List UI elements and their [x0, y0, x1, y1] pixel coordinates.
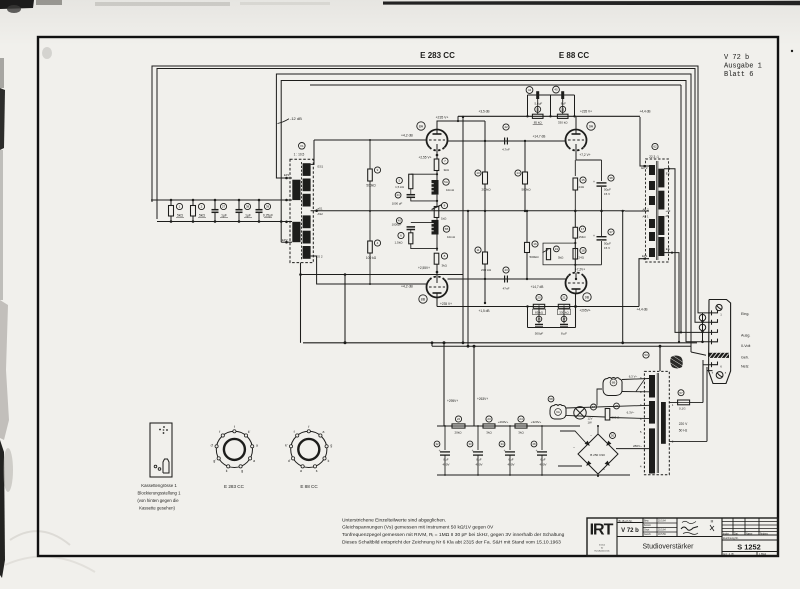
- svg-text:a: a: [256, 444, 258, 448]
- svg-text:12: 12: [536, 107, 540, 111]
- svg-text:d': d': [288, 459, 291, 463]
- svg-text:Netz: Netz: [741, 365, 749, 369]
- svg-text:Tonfrequenzpegel gemessen mi: Tonfrequenzpegel gemessen mit RIVM, Rᵢ =…: [342, 532, 565, 538]
- svg-text:44: 44: [528, 88, 532, 92]
- svg-text:500kΩ: 500kΩ: [366, 184, 376, 188]
- svg-text:330 kΩ: 330 kΩ: [558, 121, 568, 125]
- svg-text:f: f: [294, 430, 295, 434]
- svg-text:g': g': [213, 459, 216, 463]
- svg-text:k': k': [285, 444, 288, 448]
- svg-text:Dat.: Dat.: [734, 532, 739, 535]
- svg-text:EP1: EP1: [284, 173, 290, 177]
- svg-text:M: M: [711, 520, 714, 524]
- svg-text:200 kΩ: 200 kΩ: [481, 268, 492, 272]
- svg-text:+7,2 V+: +7,2 V+: [579, 153, 590, 157]
- svg-text:+235 V+: +235 V+: [436, 116, 449, 120]
- svg-text:Konstr.: Konstr.: [644, 524, 652, 527]
- svg-text:4,7nF: 4,7nF: [502, 148, 510, 152]
- svg-text:E 283 CC: E 283 CC: [420, 51, 455, 60]
- svg-text:1 Blatt: 1 Blatt: [759, 553, 766, 556]
- svg-text:15 V: 15 V: [604, 246, 610, 250]
- svg-text:Zeichnung Nr.: Zeichnung Nr.: [723, 537, 739, 540]
- svg-text:a: a: [300, 469, 302, 473]
- svg-text:200kΩ: 200kΩ: [481, 188, 491, 192]
- svg-text:+235 V+: +235 V+: [440, 302, 452, 306]
- svg-text:E 88 CC: E 88 CC: [559, 51, 589, 60]
- svg-text:Gepr.: Gepr.: [644, 529, 650, 532]
- svg-text:16: 16: [533, 242, 537, 246]
- svg-text:17: 17: [581, 227, 585, 231]
- svg-text:+263V+: +263V+: [477, 397, 488, 401]
- svg-text:+1,5 dB: +1,5 dB: [478, 309, 489, 313]
- svg-text:1 : 10,5: 1 : 10,5: [294, 153, 305, 157]
- svg-text:13: 13: [561, 107, 565, 111]
- svg-text:41: 41: [396, 193, 400, 197]
- svg-text:6,3 V~: 6,3 V~: [629, 375, 638, 379]
- svg-text:9A: 9A: [589, 124, 594, 128]
- svg-text:6A: 6A: [556, 410, 560, 414]
- svg-text:5kΩ: 5kΩ: [558, 256, 564, 260]
- svg-text:10mH: 10mH: [446, 188, 454, 192]
- svg-text:Kassette gesehen): Kassette gesehen): [139, 506, 175, 511]
- svg-text:15: 15: [581, 178, 585, 182]
- svg-text:0,1G: 0,1G: [679, 407, 686, 411]
- svg-text:1000pF: 1000pF: [392, 222, 402, 226]
- svg-text:38: 38: [246, 205, 250, 209]
- svg-text:-12 dB: -12 dB: [290, 116, 302, 121]
- svg-text:(von hinten gegen die: (von hinten gegen die: [137, 498, 179, 503]
- svg-text:k': k': [248, 430, 251, 434]
- svg-text:154Ω: 154Ω: [579, 235, 587, 239]
- svg-text:für: für: [601, 548, 604, 550]
- svg-text:Unterstrichene Einzelteilwert: Unterstrichene Einzelteilwerte sind abge…: [342, 518, 446, 524]
- svg-text:k: k: [328, 459, 330, 463]
- svg-text:47nF: 47nF: [503, 287, 510, 291]
- svg-text:V 72 b: V 72 b: [724, 54, 749, 62]
- svg-text:Name: Name: [746, 532, 753, 535]
- svg-text:Blatt 6: Blatt 6: [724, 71, 753, 79]
- svg-text:Br.-Buch Nr.: Br.-Buch Nr.: [619, 519, 633, 523]
- svg-text:1,5kΩ: 1,5kΩ: [395, 241, 404, 245]
- svg-text:+295V+: +295V+: [579, 309, 590, 313]
- svg-text:450V: 450V: [507, 463, 514, 467]
- svg-text:33: 33: [468, 442, 472, 446]
- svg-text:0-Volt: 0-Volt: [741, 344, 750, 348]
- svg-text:6B: 6B: [612, 381, 616, 385]
- svg-text:20: 20: [537, 296, 541, 300]
- svg-text:50 Hz: 50 Hz: [679, 429, 688, 433]
- svg-text:+4,4 dB: +4,4 dB: [636, 308, 647, 312]
- svg-text:+3,5 dB: +3,5 dB: [478, 110, 489, 114]
- svg-text:10: 10: [476, 171, 480, 175]
- svg-text:24: 24: [519, 417, 523, 421]
- svg-text:Änderg: Änderg: [760, 532, 768, 535]
- svg-text:1µF: 1µF: [221, 214, 227, 218]
- svg-text:E 88 CC: E 88 CC: [300, 484, 318, 489]
- svg-text:43: 43: [504, 268, 508, 272]
- svg-text:42: 42: [504, 125, 508, 129]
- svg-text:3kΩ: 3kΩ: [444, 168, 450, 172]
- svg-text:32: 32: [435, 442, 439, 446]
- svg-text:+: +: [504, 449, 506, 453]
- svg-text:34: 34: [500, 442, 504, 446]
- svg-text:8µF: 8µF: [443, 458, 448, 462]
- svg-text:6,3V~: 6,3V~: [627, 411, 635, 415]
- svg-text:s: s: [316, 469, 318, 473]
- svg-text:Blockierungsstellung 1: Blockierungsstellung 1: [138, 491, 182, 496]
- svg-text:−: −: [590, 434, 592, 438]
- svg-text:+2,55V+: +2,55V+: [418, 266, 430, 270]
- svg-text:IRT: IRT: [590, 522, 614, 539]
- svg-text:dB: dB: [666, 214, 670, 218]
- svg-text:E 283 CC: E 283 CC: [224, 484, 245, 489]
- svg-text:50µF: 50µF: [604, 188, 611, 192]
- svg-text:8B: 8B: [421, 297, 426, 301]
- svg-text:Kassettengrösse 1: Kassettengrösse 1: [141, 483, 177, 488]
- svg-text:+: +: [593, 180, 595, 184]
- svg-text:18.5.59: 18.5.59: [658, 534, 666, 536]
- svg-text:500kΩ: 500kΩ: [529, 255, 539, 259]
- svg-text:3kΩ: 3kΩ: [486, 431, 492, 435]
- svg-text:+7,2V+: +7,2V+: [575, 268, 585, 272]
- svg-text:f: f: [234, 425, 235, 429]
- svg-text:g: g: [241, 469, 243, 473]
- svg-text:f: f: [308, 425, 309, 429]
- svg-text:50µF: 50µF: [604, 242, 611, 246]
- svg-text:21: 21: [562, 296, 566, 300]
- svg-text:3kΩ: 3kΩ: [518, 431, 524, 435]
- svg-text:8 µF: 8 µF: [561, 332, 567, 336]
- svg-text:20kΩ: 20kΩ: [454, 431, 462, 435]
- svg-text:5kΩ: 5kΩ: [177, 214, 183, 218]
- svg-text:1000 pF: 1000 pF: [392, 202, 403, 206]
- svg-text:45: 45: [554, 88, 558, 92]
- svg-text:500pF: 500pF: [535, 332, 544, 336]
- svg-text:57: 57: [679, 391, 683, 395]
- svg-text:0,25µF: 0,25µF: [263, 214, 273, 218]
- svg-text:1µF: 1µF: [245, 214, 251, 218]
- svg-text:+4,4 dB: +4,4 dB: [639, 110, 650, 114]
- svg-text:6µF: 6µF: [540, 458, 545, 462]
- svg-text:1,5 kΩ: 1,5 kΩ: [395, 185, 405, 189]
- svg-text:24Ω: 24Ω: [579, 185, 585, 189]
- svg-text:AS2: AS2: [318, 212, 324, 216]
- svg-text:+4,2 dB: +4,2 dB: [401, 285, 414, 289]
- svg-text:d': d': [211, 444, 214, 448]
- svg-text:27: 27: [222, 205, 226, 209]
- svg-text:Ausgabe 1: Ausgabe 1: [724, 63, 762, 71]
- svg-text:280V~: 280V~: [633, 444, 642, 448]
- svg-text:100 kΩ: 100 kΩ: [366, 256, 377, 260]
- svg-text:a: a: [323, 430, 325, 434]
- svg-text:5,6µF: 5,6µF: [535, 101, 543, 105]
- svg-text:8µF: 8µF: [476, 458, 481, 462]
- svg-text:8A: 8A: [419, 124, 424, 128]
- svg-text:Rundfunktechnik: Rundfunktechnik: [595, 550, 610, 553]
- svg-text:9B: 9B: [585, 295, 590, 299]
- svg-text:+14,7 dB: +14,7 dB: [531, 285, 544, 289]
- svg-text:V 72 b: V 72 b: [621, 528, 639, 534]
- svg-text:+235 V+: +235 V+: [580, 110, 592, 114]
- svg-text:1W: 1W: [588, 421, 593, 425]
- svg-text:+290V+: +290V+: [498, 420, 509, 424]
- svg-text:V1: V1: [300, 144, 304, 148]
- svg-text:22: 22: [457, 417, 461, 421]
- svg-text:53: 53: [644, 353, 648, 357]
- svg-text:Bew.: Bew.: [644, 521, 649, 523]
- svg-text:1kΩ: 1kΩ: [441, 217, 447, 221]
- svg-text:a: a: [253, 459, 255, 463]
- svg-text:f: f: [219, 430, 220, 434]
- svg-text:10mH: 10mH: [447, 235, 455, 239]
- svg-text:Geh.: Geh.: [741, 356, 749, 360]
- svg-text:+295V+: +295V+: [447, 399, 458, 403]
- svg-text:22,3 :1: 22,3 :1: [649, 155, 659, 159]
- svg-text:24Ω: 24Ω: [579, 255, 585, 259]
- svg-text:Index: Index: [723, 532, 730, 535]
- svg-text:+2,55 V+: +2,55 V+: [419, 156, 432, 160]
- svg-text:5B: 5B: [445, 227, 449, 231]
- svg-text:+14,7 dB: +14,7 dB: [533, 135, 546, 139]
- svg-text:85 kΩ: 85 kΩ: [534, 121, 543, 125]
- svg-text:20.5.64: 20.5.64: [658, 530, 666, 532]
- svg-text:15 V: 15 V: [604, 192, 610, 196]
- svg-text:B 250 C90: B 250 C90: [590, 453, 605, 457]
- svg-text:5kΩ: 5kΩ: [199, 214, 205, 218]
- svg-text:+: +: [472, 449, 474, 453]
- svg-text:19: 19: [555, 247, 559, 251]
- svg-text:+22: +22: [666, 209, 671, 213]
- svg-text:Institut: Institut: [599, 544, 605, 547]
- svg-text:S 1252: S 1252: [737, 543, 760, 552]
- svg-text:Eing.: Eing.: [741, 312, 749, 316]
- svg-text:+: +: [593, 234, 595, 238]
- svg-text:aS1: aS1: [318, 207, 323, 211]
- svg-text:580kΩ: 580kΩ: [521, 188, 531, 192]
- svg-text:58: 58: [549, 397, 553, 401]
- svg-text:23: 23: [487, 417, 491, 421]
- svg-text:5A: 5A: [444, 180, 448, 184]
- svg-text:+320V+: +320V+: [531, 420, 542, 424]
- svg-text:14: 14: [516, 171, 520, 175]
- svg-text:18: 18: [581, 249, 585, 253]
- svg-text:37: 37: [609, 230, 613, 234]
- svg-text:Gleichspannungen (Vs) gemessen: Gleichspannungen (Vs) gemessen mit Instr…: [342, 525, 494, 531]
- svg-text:450V: 450V: [539, 463, 546, 467]
- svg-text:ES: ES: [666, 247, 670, 251]
- svg-text:EP1: EP1: [642, 254, 648, 258]
- svg-text:220 V: 220 V: [679, 422, 688, 426]
- svg-text:~: ~: [573, 446, 575, 450]
- svg-text:Studioverstärker: Studioverstärker: [643, 544, 695, 551]
- svg-text:450V: 450V: [442, 463, 449, 467]
- svg-text:50: 50: [611, 434, 615, 438]
- svg-text:Ausg.: Ausg.: [741, 334, 750, 338]
- svg-text:+4,2 dB: +4,2 dB: [401, 134, 414, 138]
- svg-text:ES1: ES1: [318, 165, 324, 169]
- svg-text:+: +: [439, 449, 441, 453]
- svg-text:6µF: 6µF: [508, 458, 513, 462]
- svg-text:Dieses Schaltbild entspricht: Dieses Schaltbild entspricht der Zeichnu…: [342, 540, 561, 546]
- svg-text:Anz. d. Bl.: Anz. d. Bl.: [723, 553, 735, 556]
- svg-text:28: 28: [532, 442, 536, 446]
- svg-text:38: 38: [609, 176, 613, 180]
- svg-text:8µF: 8µF: [561, 101, 566, 105]
- svg-text:AP 1: AP 1: [642, 215, 648, 219]
- svg-text:3kΩ: 3kΩ: [442, 264, 448, 268]
- svg-text:39: 39: [266, 205, 270, 209]
- svg-text:62: 62: [653, 145, 657, 149]
- svg-text:ES: ES: [666, 172, 670, 176]
- svg-text:20.5.64: 20.5.64: [658, 521, 666, 523]
- svg-text:+: +: [536, 449, 538, 453]
- svg-text:11: 11: [476, 248, 479, 252]
- svg-text:Gesch.: Gesch.: [644, 534, 652, 536]
- svg-text:450V: 450V: [475, 463, 482, 467]
- svg-text:g: g: [330, 444, 332, 448]
- svg-text:k: k: [226, 469, 228, 473]
- svg-text:+: +: [603, 468, 605, 472]
